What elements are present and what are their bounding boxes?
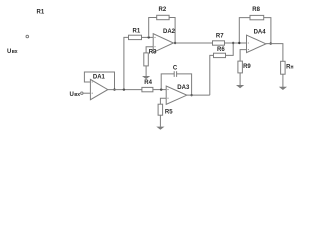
junction R6 at DA4 input (232, 42, 234, 44)
pin mark DA1 top input (92, 81, 93, 82)
resistor R2 (157, 15, 169, 19)
pin mark DA3 top input (167, 89, 168, 90)
node Uвх terminal at DA1 (81, 92, 83, 94)
resistor R8 (250, 15, 264, 19)
svg-text:R7: R7 (216, 33, 224, 39)
wire DA3 lower input to R5 (160, 98, 166, 104)
pin mark DA4 bottom input (248, 49, 249, 50)
junction DA1 output/feedback (113, 88, 115, 90)
resistor Rн (281, 61, 286, 74)
wire riser DA3 output to R6 (210, 55, 214, 95)
junction DA1 output to R1 riser (123, 88, 125, 90)
junction DA3 output node (190, 94, 192, 96)
svg-text:Uвх: Uвх (70, 92, 81, 98)
junction DA2 output node (174, 42, 176, 44)
wire R4 to DA3 (153, 89, 166, 91)
ground at R5 (156, 127, 164, 130)
op-amp DA1 (90, 79, 107, 99)
pin mark DA1 bottom input (92, 93, 93, 94)
op-amp DA4 (247, 35, 266, 53)
svg-text:R6: R6 (217, 47, 225, 53)
svg-text:R1: R1 (133, 28, 141, 34)
junction DA3 input node (160, 88, 162, 90)
pin mark DA2 bottom input (154, 46, 155, 47)
wire DA1 input (83, 92, 90, 94)
svg-text:R9: R9 (243, 64, 251, 70)
svg-text:DA1: DA1 (93, 75, 106, 81)
junction R1/R2 node (148, 36, 150, 38)
svg-text:Uвх: Uвх (7, 49, 18, 55)
capacitor C (174, 71, 176, 77)
wire R2 feedback left (149, 18, 157, 38)
svg-text:R4: R4 (144, 80, 152, 86)
wire C feedback right (177, 74, 192, 95)
svg-text:R2: R2 (159, 7, 167, 13)
resistor R4 (142, 87, 153, 91)
op-amp DA3 (166, 86, 187, 104)
svg-text:R1: R1 (37, 9, 45, 15)
wire R9 to ground (239, 73, 241, 85)
resistor R1 (129, 35, 142, 39)
wire riser to R1 (124, 37, 129, 89)
wire DA4 output to Rn (266, 44, 283, 62)
wire C feedback left (161, 74, 174, 90)
node input terminal (isolated, top-left) (26, 35, 29, 38)
svg-text:R3: R3 (149, 49, 157, 55)
wire R3 to ground (145, 66, 147, 76)
svg-text:DA4: DA4 (254, 30, 267, 36)
ground at Rн (279, 87, 287, 90)
ground at R3 (142, 76, 150, 79)
svg-text:R8: R8 (252, 7, 260, 13)
wire R8 feedback right (264, 18, 271, 44)
resistor R5 (158, 104, 163, 115)
svg-text:R5: R5 (165, 109, 173, 115)
resistor R6 (214, 53, 226, 57)
pin mark DA4 top input (248, 42, 249, 43)
resistor R3 (144, 53, 149, 66)
resistor R7 (213, 41, 225, 45)
wire DA2 output to R7 (173, 42, 212, 44)
svg-text:C: C (173, 66, 178, 72)
junction DA4 output node (270, 42, 272, 44)
pin mark DA2 top input (154, 37, 155, 38)
wire DA3 output (187, 94, 210, 96)
wire DA4 lower input to R9 (240, 50, 246, 62)
ground at R9 (236, 85, 244, 88)
wire R7 to DA4 (225, 42, 247, 44)
svg-text:DA2: DA2 (163, 29, 176, 35)
wire R6 to DA4 input node (226, 43, 234, 55)
wire R5 to ground (159, 115, 161, 127)
junction R8 at DA4 input (238, 42, 240, 44)
wire Rн to ground (282, 74, 284, 87)
svg-text:DA3: DA3 (177, 85, 190, 91)
op-amp DA2 (153, 34, 173, 53)
wire DA1 feedback loop (84, 72, 114, 90)
wire R1 to DA2 (142, 36, 154, 38)
wire R8 feedback left (239, 18, 250, 43)
wire DA2 lower input to R3 (146, 47, 153, 53)
wire R2 feedback right (169, 18, 175, 44)
svg-text:Rн: Rн (286, 64, 293, 70)
wire DA1 output (108, 89, 142, 91)
pin mark DA3 bottom input (167, 98, 168, 99)
resistor R9 (238, 61, 243, 73)
